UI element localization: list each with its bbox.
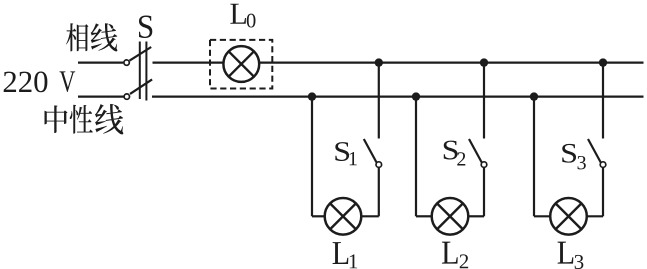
switch S2 blade	[469, 139, 482, 162]
wire branch 1 live drop	[378, 63, 380, 139]
wire live middle segment (switch to lamp L0)	[153, 61, 225, 63]
switch S3 contact circle	[600, 162, 606, 168]
label L2	[442, 242, 468, 269]
wire neutral left segment	[78, 95, 124, 97]
label L3	[558, 242, 584, 269]
label L0	[230, 4, 255, 28]
wire branch 1 switch-to-lamp drop	[378, 168, 380, 216]
lamp L2	[432, 198, 469, 235]
label S1	[335, 142, 356, 165]
lamp L0	[223, 46, 259, 82]
lamp L1	[325, 198, 362, 235]
wire branch 3 live drop	[602, 63, 604, 139]
label 220 V	[4, 71, 75, 92]
junction node live-branch 3	[599, 58, 607, 66]
junction node neutral-branch 3	[530, 92, 538, 100]
wire branch 2 switch-to-lamp drop	[483, 168, 485, 216]
switch S linkage bar left	[139, 42, 141, 100]
switch S pole 1 blade	[130, 47, 152, 61]
switch S1 contact circle	[376, 162, 382, 168]
label S (main double-pole switch)	[139, 16, 152, 39]
junction node neutral-branch 1	[308, 92, 316, 100]
wire live left segment	[78, 61, 123, 63]
wire live right segment	[259, 61, 644, 63]
label 相线 (live wire)	[66, 23, 117, 51]
wire branch 2 lamp right lead	[468, 215, 484, 217]
wire branch 2 lamp left lead	[416, 215, 432, 217]
switch S pole 2 contact circle	[124, 94, 129, 99]
wire branch 3 lamp left lead	[534, 215, 551, 217]
label S3	[562, 144, 586, 170]
switch S pole 2 blade	[130, 79, 152, 94]
wire branch 2 live drop	[483, 63, 485, 139]
wire branch 1 lamp right lead	[361, 215, 379, 217]
junction node neutral-branch 2	[412, 92, 420, 100]
wire branch 3 lamp right lead	[587, 215, 604, 217]
label L1	[333, 242, 358, 268]
wire neutral right segment	[152, 95, 644, 97]
label S2	[444, 141, 466, 166]
junction node live-branch 1	[375, 58, 383, 66]
switch S3 blade	[588, 139, 601, 162]
switch S2 contact circle	[481, 162, 487, 168]
wire branch 1 lamp left lead	[312, 215, 325, 217]
junction node live-branch 2	[480, 58, 488, 66]
wire branch 2 neutral drop	[415, 97, 417, 217]
label 中性线 (neutral wire)	[45, 104, 124, 135]
switch S linkage bar right	[145, 42, 147, 101]
wire branch 3 switch-to-lamp drop	[602, 168, 604, 216]
switch S pole 1 contact circle	[124, 60, 129, 65]
dashed box around lamp L0	[210, 40, 272, 89]
switch S1 blade	[364, 139, 377, 162]
wire branch 1 neutral drop	[311, 97, 313, 217]
wire branch 3 neutral drop	[533, 97, 535, 217]
lamp L3	[550, 198, 587, 235]
